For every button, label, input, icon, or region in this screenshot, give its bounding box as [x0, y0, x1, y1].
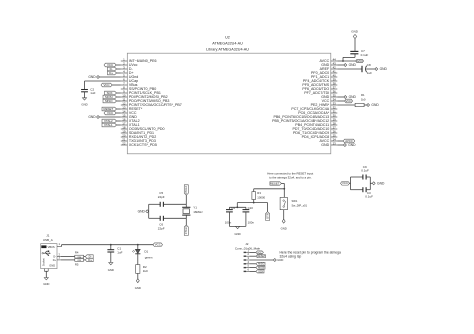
svg-text:GND: GND	[88, 75, 96, 79]
svg-text:SW1: SW1	[292, 199, 298, 203]
svg-text:GND: GND	[281, 227, 287, 231]
svg-text:R2: R2	[143, 265, 147, 269]
svg-text:R5: R5	[75, 263, 79, 267]
svg-text:XTAL1: XTAL1	[184, 226, 188, 235]
svg-text:1uF: 1uF	[90, 91, 95, 95]
svg-text:ATMEGA32U4-AU: ATMEGA32U4-AU	[212, 41, 243, 45]
svg-text:GND: GND	[349, 63, 357, 67]
svg-text:R4: R4	[75, 250, 79, 254]
svg-text:D+: D+	[109, 71, 113, 75]
svg-text:Library:ATMEGA32U4-AU: Library:ATMEGA32U4-AU	[206, 47, 249, 51]
svg-text:D+: D+	[53, 259, 57, 262]
svg-text:22: 22	[122, 141, 126, 145]
svg-text:SCK: SCK	[258, 270, 263, 273]
svg-text:AVCC: AVCC	[356, 59, 363, 63]
svg-text:GND: GND	[348, 143, 356, 147]
svg-text:D1: D1	[144, 250, 148, 254]
svg-text:GND: GND	[277, 258, 283, 262]
svg-text:VCC: VCC	[155, 243, 161, 247]
svg-text:1uF: 1uF	[367, 71, 372, 75]
svg-text:GND: GND	[88, 115, 96, 119]
svg-text:10000: 10000	[257, 195, 265, 199]
svg-text:Sw_DIP_x01: Sw_DIP_x01	[292, 204, 308, 208]
svg-text:XTAL1: XTAL1	[104, 123, 113, 127]
svg-text:green: green	[145, 256, 153, 260]
svg-text:0.1uF: 0.1uF	[361, 169, 369, 173]
svg-text:32u4 using Isp: 32u4 using Isp	[280, 255, 302, 259]
svg-text:1k0: 1k0	[143, 269, 148, 273]
svg-text:GND: GND	[380, 67, 388, 71]
svg-text:0.1uF: 0.1uF	[361, 53, 369, 57]
svg-text:C4: C4	[231, 206, 235, 210]
svg-text:VBUS: VBUS	[48, 245, 55, 249]
svg-text:VCC: VCC	[107, 111, 113, 115]
svg-text:C10: C10	[248, 206, 254, 210]
svg-text:GND: GND	[138, 210, 146, 214]
svg-text:GND: GND	[371, 103, 379, 107]
svg-text:GND: GND	[43, 282, 49, 286]
svg-text:VCC: VCC	[103, 83, 109, 87]
svg-text:RESET: RESET	[257, 255, 266, 258]
svg-text:1k0: 1k0	[361, 97, 366, 101]
svg-text:MOSI: MOSI	[258, 267, 264, 270]
svg-text:D+: D+	[88, 258, 92, 262]
svg-text:GND: GND	[321, 143, 329, 147]
svg-text:to the atmega 32u4, and to a p: to the atmega 32u4, and to a pin.	[269, 176, 312, 180]
svg-text:C8: C8	[367, 63, 371, 67]
svg-text:VCC: VCC	[342, 181, 348, 185]
svg-text:USB_A: USB_A	[43, 238, 53, 242]
svg-text:GND: GND	[49, 263, 55, 267]
svg-text:GND: GND	[351, 30, 359, 34]
svg-text:GND: GND	[377, 182, 385, 186]
svg-text:U2: U2	[225, 35, 230, 39]
svg-text:XTAL2: XTAL2	[184, 185, 188, 194]
svg-text:0.1uF: 0.1uF	[365, 195, 373, 199]
svg-text:VCC: VCC	[346, 99, 352, 103]
svg-text:R3: R3	[257, 191, 261, 195]
svg-text:100n: 100n	[248, 221, 255, 225]
svg-text:16MHz: 16MHz	[193, 210, 203, 214]
svg-text:GND: GND	[81, 102, 87, 106]
svg-text:22pF: 22pF	[158, 195, 165, 199]
svg-text:MISO: MISO	[105, 99, 113, 103]
svg-text:GND: GND	[135, 286, 141, 290]
svg-text:GND: GND	[108, 268, 114, 272]
svg-text:MISO: MISO	[258, 263, 264, 266]
svg-text:23: 23	[333, 141, 337, 145]
svg-text:XCK1/CTS*_PD5: XCK1/CTS*_PD5	[129, 143, 157, 147]
svg-text:Y1: Y1	[193, 205, 197, 209]
svg-text:100n: 100n	[225, 221, 232, 225]
svg-text:RESET: RESET	[270, 181, 280, 185]
svg-text:VCC: VCC	[257, 251, 262, 254]
svg-text:1uF: 1uF	[117, 251, 122, 255]
svg-text:DTR: DTR	[266, 213, 270, 219]
svg-text:Socket: Socket	[41, 258, 45, 266]
svg-text:GND: GND	[234, 232, 240, 236]
svg-text:22pF: 22pF	[158, 227, 165, 231]
